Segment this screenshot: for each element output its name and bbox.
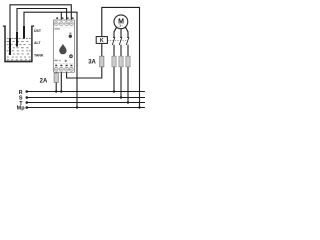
electrode A (TANK probe) xyxy=(9,38,11,56)
wire terminal A2 to R rail xyxy=(60,72,62,91)
relay panel separators xyxy=(54,27,74,64)
junction phase3-T xyxy=(127,101,129,103)
svg-text:Mp: Mp xyxy=(17,106,26,112)
svg-text:3~: 3~ xyxy=(119,24,123,28)
adjust knob xyxy=(69,54,73,58)
junction electrode C wire to Mp xyxy=(76,106,78,108)
wire motor phase U xyxy=(114,27,117,38)
fuse F4 phase 2 xyxy=(119,56,123,67)
junction phase1-R xyxy=(113,90,115,92)
wire terminal A1 to R rail xyxy=(55,72,57,91)
fuse F1 2A xyxy=(54,73,58,82)
rail Mp xyxy=(27,107,145,109)
linkage dashed line xyxy=(107,40,128,42)
wire phase line 3 to T rail xyxy=(127,45,129,103)
fuse F3 phase 1 xyxy=(112,56,116,67)
contactor K main contact 3 xyxy=(126,37,129,45)
junction A1-R xyxy=(55,90,57,92)
svg-text:ÜST: ÜST xyxy=(34,29,42,33)
svg-text:2A: 2A xyxy=(40,79,48,85)
svg-text:K: K xyxy=(100,38,104,44)
rail T xyxy=(27,102,145,104)
wire relay output to contactor coil xyxy=(67,43,102,78)
junction A2-R xyxy=(60,90,62,92)
relay model text xyxy=(54,28,59,29)
contactor coil K1 xyxy=(96,37,107,44)
motor M1 xyxy=(114,15,128,29)
water (liquid fill hatching) xyxy=(7,38,31,60)
electrode B (ALT probe) xyxy=(16,32,18,47)
contactor K main contact 2 xyxy=(119,37,122,45)
wire phase line 2 to S rail xyxy=(120,45,122,98)
terminal screws bottom xyxy=(54,67,73,71)
wire branch to terminal 2 xyxy=(60,12,62,20)
wire electrode B to terminal 3 xyxy=(17,9,67,32)
sensitivity icon row xyxy=(54,60,58,62)
wire motor phase V xyxy=(120,29,122,38)
svg-text:ALT: ALT xyxy=(34,41,41,45)
rail start terminals xyxy=(26,90,29,109)
level relay U1 body xyxy=(53,20,74,72)
wire motor phase W xyxy=(125,27,128,38)
water-drop logo xyxy=(59,44,66,55)
contactor K main contact 1 xyxy=(112,37,115,45)
LED indicator xyxy=(69,33,71,34)
wire phase line 1 to R rail xyxy=(113,45,115,92)
fuse F2 3A xyxy=(100,56,104,67)
terminal labels bottom row xyxy=(55,65,72,67)
terminal labels top row xyxy=(56,17,73,19)
contactor coil K1 feed wire xyxy=(102,7,140,107)
rail R xyxy=(27,91,145,93)
junction phase2-S xyxy=(120,96,122,98)
wire electrode A to terminal 4 xyxy=(10,5,71,37)
wire electrode C to Mp via right side xyxy=(24,12,77,107)
tank xyxy=(3,26,34,62)
svg-text:TANK: TANK xyxy=(34,53,44,57)
svg-text:3A: 3A xyxy=(88,59,96,65)
junction coil return to Mp xyxy=(138,106,140,108)
electrode C (UST probe) xyxy=(23,26,25,39)
rail S xyxy=(27,97,145,99)
fuse F5 phase 3 xyxy=(126,56,130,67)
terminal screws top xyxy=(54,22,73,26)
